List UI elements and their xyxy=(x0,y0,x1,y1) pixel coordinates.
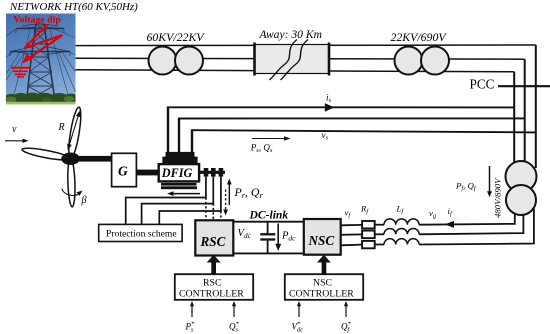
svg-text:Pf, Qf: Pf, Qf xyxy=(455,180,477,192)
svg-text:Voltage dip: Voltage dip xyxy=(14,15,62,26)
svg-text:Pdc: Pdc xyxy=(281,231,296,243)
rotor terminal block 3 xyxy=(219,168,224,177)
turbine blade bottom xyxy=(67,158,76,207)
svg-text:CONTROLLER: CONTROLLER xyxy=(289,289,354,300)
svg-text:is: is xyxy=(326,92,332,104)
grid wire 3 xyxy=(419,205,534,245)
svg-text:CONTROLLER: CONTROLLER xyxy=(179,289,244,300)
transformer T3 circle bottom xyxy=(506,185,536,215)
is arrow head xyxy=(325,103,334,112)
svg-text:Ps, Qs: Ps, Qs xyxy=(250,142,273,154)
photo: network pylon xyxy=(6,14,76,105)
reference input Qs* xyxy=(233,305,235,318)
controller arrow RSC xyxy=(211,262,216,275)
reference input Ps* xyxy=(191,305,193,318)
solid up arrow Pr Qr xyxy=(228,182,230,205)
dashed down arrow Pr Qr xyxy=(225,190,227,212)
svg-text:V*dc: V*dc xyxy=(292,320,304,333)
svg-text:Protection scheme: Protection scheme xyxy=(106,229,177,240)
DC bus bottom wire xyxy=(233,252,303,254)
rotor terminal block 2 xyxy=(211,168,216,177)
gearbox G xyxy=(112,153,137,186)
voltage dip lightning arrow xyxy=(25,25,63,59)
wire rotor to protection 3 xyxy=(159,177,221,225)
wire Rf to Lf 1 xyxy=(375,224,384,226)
svg-text:v: v xyxy=(12,124,17,135)
svg-text:DC-link: DC-link xyxy=(249,209,289,222)
dashed wire to RSC 1 xyxy=(205,198,207,221)
Ps Qs annotation arrow xyxy=(252,138,287,140)
filter wire 2 xyxy=(341,233,362,235)
svg-text:vg: vg xyxy=(429,208,437,220)
dashed wire to RSC 2 xyxy=(212,204,214,220)
svg-text:Away: 30 Km: Away: 30 Km xyxy=(259,28,322,41)
right vertical wire from line1 xyxy=(535,45,537,168)
rotor wire xyxy=(199,171,225,174)
reference input Vdc* xyxy=(298,305,300,318)
protection scheme box xyxy=(99,224,182,241)
stator wire is xyxy=(168,106,514,108)
machine DFIG xyxy=(159,164,199,181)
inductor Lf 3 xyxy=(384,239,419,245)
right vertical wire from line2 xyxy=(524,59,526,172)
svg-text:NETWORK HT(60 KV,50Hz): NETWORK HT(60 KV,50Hz) xyxy=(9,1,138,13)
svg-text:RSC: RSC xyxy=(200,234,226,249)
svg-text:Vdc: Vdc xyxy=(238,228,252,240)
pitch angle arc beta xyxy=(62,189,81,196)
svg-text:Q*f: Q*f xyxy=(341,320,352,333)
DFIG bottom bar xyxy=(161,183,197,186)
resistor Rf 1 xyxy=(362,221,375,228)
svg-text:DFIG: DFIG xyxy=(161,166,193,180)
svg-text:vf: vf xyxy=(345,208,352,220)
wire rotor to protection 2 xyxy=(142,177,214,225)
svg-text:R: R xyxy=(58,122,65,133)
DFIG stator terminal cap xyxy=(166,152,195,157)
svg-text:60KV/22KV: 60KV/22KV xyxy=(147,30,206,44)
svg-text:if: if xyxy=(448,206,453,218)
reference input Qf* xyxy=(345,305,347,318)
transformer T3 circle top xyxy=(506,161,537,192)
right vertical wire from line3 xyxy=(513,72,515,176)
transmission line block xyxy=(255,40,330,81)
svg-text:Lf: Lf xyxy=(396,204,405,216)
transformer T1 circle A xyxy=(149,47,177,75)
svg-text:NSC: NSC xyxy=(308,233,335,248)
shaft hub to gearbox xyxy=(76,156,112,162)
transformer T2 circle A xyxy=(395,47,423,75)
svg-text:22KV/690V: 22KV/690V xyxy=(391,30,448,44)
shaft gearbox to DFIG xyxy=(136,170,158,176)
transformer T2 circle B xyxy=(421,47,449,75)
rotor power arrow left xyxy=(170,193,200,195)
svg-text:Q*s: Q*s xyxy=(229,320,240,333)
red ground symbol xyxy=(11,68,30,77)
svg-text:P*s: P*s xyxy=(185,320,196,333)
inductor Lf 2 xyxy=(384,228,419,234)
wire rotor to protection 1 xyxy=(126,177,206,225)
grid wire 2 xyxy=(419,210,523,234)
converter RSC xyxy=(195,220,233,255)
filter wire 1 xyxy=(341,224,362,226)
Pdc arrow xyxy=(277,224,279,246)
svg-text:PCC: PCC xyxy=(470,76,495,91)
svg-text:NSC: NSC xyxy=(313,278,332,289)
Pf Qf down arrow xyxy=(489,166,491,194)
converter NSC xyxy=(304,219,341,255)
DC bus top wire xyxy=(233,221,303,223)
turbine blade left xyxy=(21,146,71,162)
dashed wire to RSC 3 xyxy=(220,211,222,220)
controller arrow NSC xyxy=(322,262,327,275)
svg-text:480V/690V: 480V/690V xyxy=(493,177,503,218)
stator wire vs xyxy=(192,130,536,132)
svg-text:Pr, Qr: Pr, Qr xyxy=(234,185,264,200)
capacitor C xyxy=(267,222,269,234)
bus wire line 2 xyxy=(76,58,525,59)
svg-text:β: β xyxy=(81,195,87,206)
bus wire line 1 xyxy=(76,44,536,47)
PCC wire xyxy=(498,85,550,87)
svg-text:G: G xyxy=(118,164,128,179)
stator wire mid xyxy=(179,117,525,119)
rotor terminal block 1 xyxy=(204,168,209,177)
grid wire 1 with arrow xyxy=(419,205,515,225)
NSC controller box xyxy=(285,274,363,300)
resistor Rf 3 xyxy=(362,241,375,248)
resistor Rf 2 xyxy=(362,231,375,239)
svg-text:Rf: Rf xyxy=(360,204,369,216)
filter wire 3 xyxy=(341,244,362,247)
wind arrow xyxy=(5,140,25,142)
transformer T1 circle B xyxy=(175,47,203,75)
svg-text:RSC: RSC xyxy=(203,278,222,289)
bus wire line 3 xyxy=(76,70,515,72)
turbine hub xyxy=(61,153,80,165)
RSC controller box xyxy=(175,274,253,300)
trees xyxy=(6,93,76,105)
turbine blade top xyxy=(66,106,83,159)
inductor Lf 1 xyxy=(384,219,419,225)
